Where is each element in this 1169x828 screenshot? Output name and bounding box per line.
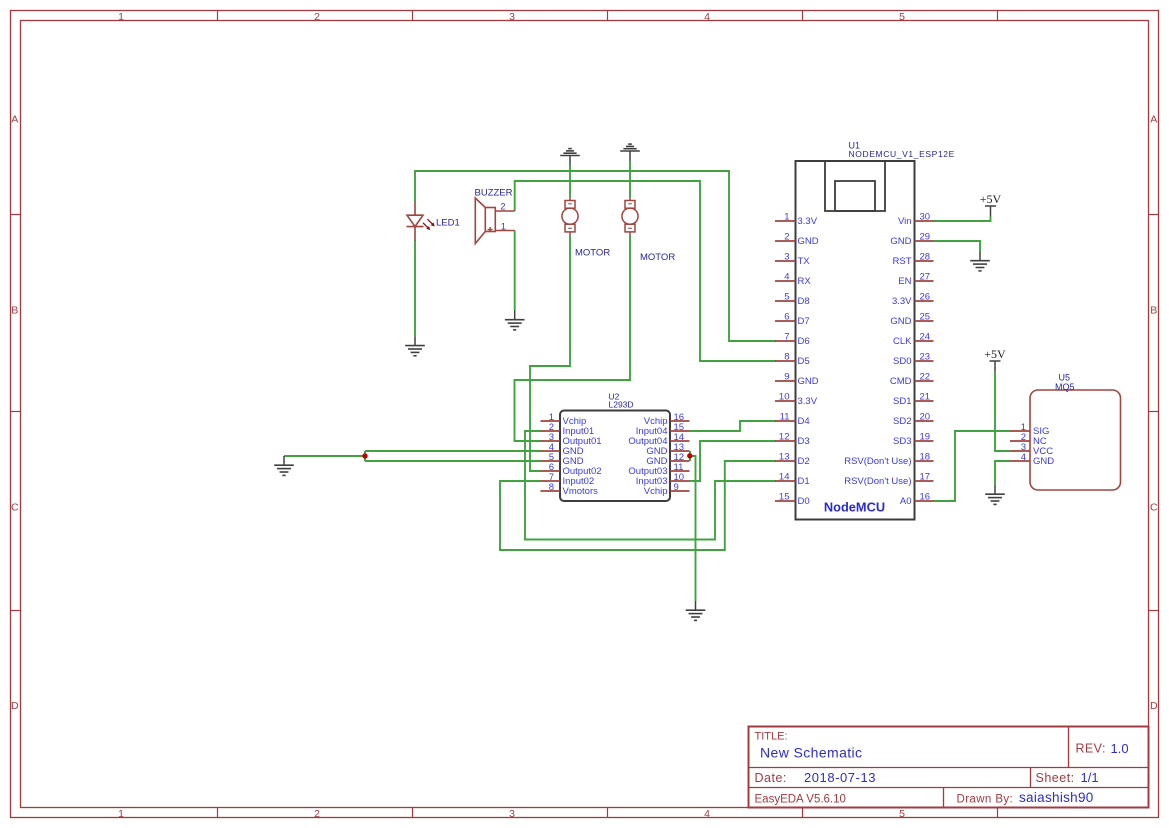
- U1 pin 7 D6: [775, 332, 810, 348]
- svg-text:BUZZER: BUZZER: [475, 188, 513, 199]
- svg-text:Vchip: Vchip: [644, 486, 668, 497]
- svg-text:B: B: [11, 305, 18, 317]
- junction dot left GND net: [362, 453, 367, 458]
- svg-text:Date:: Date:: [755, 771, 787, 785]
- U1 pin 16 A0: [900, 492, 934, 508]
- svg-text:24: 24: [920, 332, 931, 343]
- U2 pin 13 GND: [646, 442, 689, 457]
- U2 pin 10 Input03: [636, 472, 690, 487]
- svg-text:11: 11: [780, 412, 790, 423]
- U1 pin 4 RX: [775, 272, 811, 288]
- svg-text:2: 2: [314, 11, 320, 23]
- svg-text:26: 26: [920, 292, 931, 303]
- wire U1 GND29 to ground: [933, 241, 980, 252]
- svg-text:RX: RX: [798, 276, 812, 287]
- junction dot U2 right GND net: [687, 453, 692, 458]
- svg-text:SD1: SD1: [893, 396, 911, 407]
- svg-text:12: 12: [779, 432, 790, 443]
- svg-text:1: 1: [501, 222, 506, 233]
- svg-text:18: 18: [920, 452, 931, 463]
- U1 pin 18 RSV(Don't Use): [844, 452, 933, 468]
- svg-text:9: 9: [784, 372, 789, 383]
- LED LED1: [407, 202, 435, 241]
- wire U2 Input03 to U1 D3: [690, 441, 777, 481]
- svg-text:C: C: [1150, 502, 1158, 514]
- svg-text:1/1: 1/1: [1081, 770, 1099, 785]
- svg-text:22: 22: [920, 372, 931, 383]
- svg-text:21: 21: [920, 392, 931, 403]
- U1 pin 17 RSV(Don't Use): [844, 472, 933, 488]
- U1 pin 30 Vin: [898, 212, 934, 228]
- U1 pin 11 D4: [775, 412, 810, 428]
- svg-text:17: 17: [920, 472, 931, 483]
- +5V symbol at U5 VCC: [984, 347, 1006, 371]
- wire U2 Input01 to U1 D1: [525, 431, 776, 540]
- U1 pin 8 D5: [775, 352, 810, 368]
- svg-text:RST: RST: [893, 256, 912, 267]
- svg-text:3.3V: 3.3V: [798, 216, 818, 227]
- U1 pin 22 CMD: [890, 372, 934, 388]
- svg-text:3: 3: [784, 252, 789, 263]
- svg-text:1: 1: [118, 11, 124, 23]
- svg-text:GND: GND: [798, 376, 819, 387]
- wire U5 GND to ground: [995, 461, 1010, 485]
- svg-text:D0: D0: [798, 496, 810, 507]
- U1 pin 2 GND: [775, 232, 819, 248]
- svg-text:SD0: SD0: [893, 356, 911, 367]
- ground below U2: [686, 601, 706, 620]
- U2 pin 7 Input02: [541, 472, 595, 487]
- wire MOTOR2 top to ground: [629, 161, 631, 197]
- svg-text:MQ5: MQ5: [1055, 382, 1075, 392]
- svg-text:27: 27: [920, 272, 931, 283]
- svg-text:1: 1: [784, 212, 789, 223]
- U1 pin 27 EN: [898, 272, 933, 288]
- U2 pin 1 Vchip: [541, 412, 587, 427]
- U2 pin 5 GND: [541, 452, 584, 467]
- buzzer pin 1 stub: [495, 230, 514, 232]
- U1 pin 13 D2: [775, 452, 810, 468]
- svg-text:CLK: CLK: [893, 336, 912, 347]
- svg-text:14: 14: [779, 472, 790, 483]
- U2 pin 3 Output01: [541, 432, 602, 447]
- wire MOTOR2 to U2 Output01: [515, 236, 631, 441]
- U2 pin 14 Output04: [628, 432, 689, 447]
- U1 pin 21 SD1: [893, 392, 933, 408]
- U1 pin 23 SD0: [893, 352, 933, 368]
- motor MOTOR2: [622, 197, 638, 236]
- U5 pin 4 GND: [1010, 452, 1054, 467]
- svg-text:3.3V: 3.3V: [892, 296, 912, 307]
- U2 pin 16 Vchip: [644, 412, 690, 427]
- svg-text:D6: D6: [798, 336, 810, 347]
- svg-text:New Schematic: New Schematic: [760, 745, 862, 761]
- svg-text:D: D: [11, 700, 19, 712]
- svg-text:2: 2: [784, 232, 789, 243]
- svg-text:9: 9: [674, 482, 679, 493]
- svg-text:4: 4: [784, 272, 789, 283]
- U2 pin 9 Vchip: [644, 482, 690, 497]
- ground below BUZZER: [505, 311, 525, 330]
- svg-text:23: 23: [920, 352, 931, 363]
- U2 pin 8 Vmotors: [541, 482, 599, 497]
- svg-text:A0: A0: [900, 496, 912, 507]
- svg-text:5: 5: [899, 808, 905, 820]
- svg-text:TX: TX: [798, 256, 811, 267]
- svg-text:Vin: Vin: [898, 216, 912, 227]
- U1 pin 24 CLK: [893, 332, 933, 348]
- IC U1 NODEMCU_V1_ESP12E body: [796, 161, 915, 520]
- U1 pin 20 SD2: [893, 412, 933, 428]
- wire MOTOR1 to U2 Output02: [530, 236, 570, 471]
- svg-text:30: 30: [920, 212, 931, 223]
- buzzer pin 2 stub: [495, 210, 514, 212]
- ground at U1 pin 29: [970, 252, 990, 271]
- svg-text:RSV(Don't Use): RSV(Don't Use): [844, 456, 911, 467]
- svg-text:19: 19: [920, 432, 931, 443]
- wire U1 Vin to +5V: [933, 216, 991, 221]
- wire U2 GND pins 13-12 to ground: [690, 451, 696, 601]
- title block: [749, 727, 1149, 808]
- wire +5V to U5 VCC: [995, 371, 1010, 451]
- svg-text:GND: GND: [890, 236, 911, 247]
- svg-text:D2: D2: [798, 456, 810, 467]
- wire ground to U2 GND pins 4-5: [284, 451, 541, 461]
- svg-text:L293D: L293D: [609, 400, 634, 410]
- U1 pin 26 3.3V: [892, 292, 934, 308]
- U5 pin 2 NC: [1010, 432, 1047, 447]
- ground above MOTOR1: [560, 149, 580, 166]
- U2 pin 15 Input04: [636, 422, 690, 437]
- U1 pin 6 D7: [775, 312, 810, 328]
- U1 pin 1 3.3V: [775, 212, 818, 228]
- wire LED1 to U1 D6: [415, 171, 776, 341]
- U1 pin 15 D0: [775, 492, 810, 508]
- svg-text:29: 29: [920, 232, 931, 243]
- U1 pin 29 GND: [890, 232, 933, 248]
- U1 pin 25 GND: [890, 312, 933, 328]
- svg-text:D8: D8: [798, 296, 810, 307]
- svg-text:EN: EN: [898, 276, 911, 287]
- svg-text:D: D: [1150, 700, 1158, 712]
- wire BUZZER pin2 to U1 D5: [515, 181, 776, 361]
- svg-text:D4: D4: [798, 416, 810, 427]
- svg-text:GND: GND: [798, 236, 819, 247]
- U1 pin 9 GND: [775, 372, 819, 388]
- IC U2 L293D body: [560, 411, 670, 502]
- svg-text:+5V: +5V: [980, 192, 1002, 206]
- IC U5 MQ5 body: [1030, 390, 1121, 490]
- U2 pin 4 GND: [541, 442, 584, 457]
- svg-text:Drawn By:: Drawn By:: [957, 794, 1014, 806]
- U2 pin 6 Output02: [541, 462, 602, 477]
- wire MOTOR1 top to ground: [569, 166, 571, 198]
- svg-text:1.0: 1.0: [1111, 741, 1129, 756]
- svg-text:1: 1: [118, 808, 124, 820]
- svg-text:D1: D1: [798, 476, 810, 487]
- svg-text:LED1: LED1: [436, 218, 460, 229]
- U2 pin 2 Input01: [541, 422, 595, 437]
- U2 pin 11 Output03: [628, 462, 689, 477]
- U1 pin 12 D3: [775, 432, 810, 448]
- +5V symbol at U1 Vin: [980, 192, 1002, 216]
- svg-text:C: C: [11, 502, 19, 514]
- svg-text:A: A: [11, 114, 18, 126]
- svg-text:+5V: +5V: [984, 347, 1006, 361]
- svg-text:15: 15: [779, 492, 790, 503]
- ground above MOTOR2: [620, 144, 640, 161]
- wire U2 Input02 to U1 D2: [500, 461, 776, 550]
- svg-text:NodeMCU: NodeMCU: [824, 500, 885, 515]
- ground left of U2: [274, 456, 294, 475]
- svg-text:D3: D3: [798, 436, 810, 447]
- svg-text:U5: U5: [1059, 373, 1071, 383]
- svg-text:MOTOR: MOTOR: [575, 248, 610, 259]
- U1 pin 14 D1: [775, 472, 810, 488]
- svg-text:3: 3: [509, 808, 515, 820]
- motor MOTOR1: [562, 197, 578, 236]
- svg-text:MOTOR: MOTOR: [640, 252, 675, 263]
- svg-text:3: 3: [509, 11, 515, 23]
- svg-text:7: 7: [784, 332, 789, 343]
- svg-text:10: 10: [779, 392, 790, 403]
- svg-text:28: 28: [920, 252, 931, 263]
- svg-text:2: 2: [314, 808, 320, 820]
- svg-text:Vmotors: Vmotors: [563, 486, 599, 497]
- svg-text:EasyEDA V5.6.10: EasyEDA V5.6.10: [755, 794, 846, 806]
- svg-text:4: 4: [1021, 452, 1026, 463]
- svg-text:CMD: CMD: [890, 376, 912, 387]
- U1 pin 5 D8: [775, 292, 810, 308]
- svg-text:SD3: SD3: [893, 436, 911, 447]
- wire U1 A0 to U5 SIG: [933, 431, 1010, 501]
- svg-text:6: 6: [784, 312, 789, 323]
- svg-text:25: 25: [920, 312, 931, 323]
- U5 pin 1 SIG: [1010, 422, 1049, 437]
- svg-text:8: 8: [549, 482, 554, 493]
- svg-text:4: 4: [704, 808, 710, 820]
- svg-text:D5: D5: [798, 356, 810, 367]
- svg-text:D7: D7: [798, 316, 810, 327]
- svg-text:2: 2: [500, 202, 505, 213]
- svg-text:SD2: SD2: [893, 416, 911, 427]
- svg-text:GND: GND: [1033, 456, 1054, 467]
- buzzer BUZZER: [475, 198, 495, 244]
- svg-text:Sheet:: Sheet:: [1036, 771, 1075, 785]
- svg-text:4: 4: [704, 11, 710, 23]
- svg-text:5: 5: [784, 292, 789, 303]
- U2 pin 12 GND: [646, 452, 689, 467]
- U1 pin 19 SD3: [893, 432, 933, 448]
- U1 pin 3 TX: [775, 252, 810, 268]
- svg-text:REV:: REV:: [1076, 742, 1106, 756]
- svg-text:20: 20: [920, 412, 931, 423]
- U1 pin 10 3.3V: [775, 392, 818, 408]
- svg-text:RSV(Don't Use): RSV(Don't Use): [844, 476, 911, 487]
- U5 pin 3 VCC: [1010, 442, 1053, 457]
- svg-text:GND: GND: [890, 316, 911, 327]
- svg-text:B: B: [1150, 305, 1157, 317]
- wire U2 Input04 to U1 D4: [690, 421, 777, 431]
- svg-text:TITLE:: TITLE:: [755, 731, 788, 743]
- svg-text:13: 13: [779, 452, 790, 463]
- svg-text:8: 8: [784, 352, 789, 363]
- svg-text:16: 16: [920, 492, 931, 503]
- svg-text:3.3V: 3.3V: [798, 396, 818, 407]
- svg-text:2018-07-13: 2018-07-13: [804, 770, 876, 785]
- svg-text:saiashish90: saiashish90: [1019, 790, 1094, 805]
- U1 pin 28 RST: [893, 252, 934, 268]
- svg-text:NODEMCU_V1_ESP12E: NODEMCU_V1_ESP12E: [849, 149, 955, 159]
- svg-text:A: A: [1150, 114, 1157, 126]
- wire LED1 cathode to ground: [414, 240, 416, 336]
- ground below U5: [985, 485, 1005, 504]
- ground below LED1: [405, 336, 425, 355]
- svg-text:5: 5: [899, 11, 905, 23]
- wire BUZZER pin1 to ground: [514, 231, 516, 311]
